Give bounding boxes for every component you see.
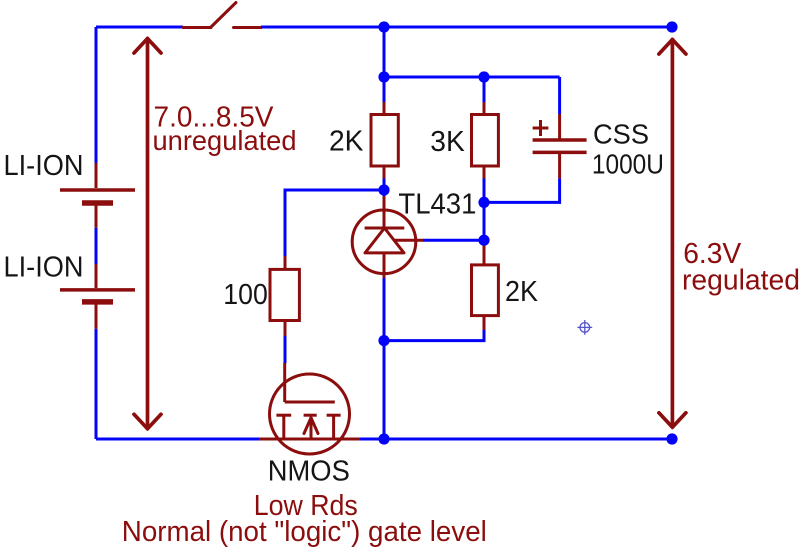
NMOS channel segments <box>276 414 340 417</box>
wire ref to divider <box>423 239 484 242</box>
svg-text:NMOS: NMOS <box>268 456 350 488</box>
arrow unregulated voltage <box>134 39 161 429</box>
node dot ref <box>478 235 489 246</box>
svg-text:100: 100 <box>223 279 267 311</box>
svg-text:regulated: regulated <box>682 265 800 297</box>
wire 3K bottom to ref node <box>483 179 486 241</box>
svg-text:CSS: CSS <box>593 119 649 150</box>
wire 100 to gate <box>284 336 287 363</box>
resistor R1 2K <box>371 115 398 167</box>
node dot second wire right <box>478 71 489 82</box>
svg-text:unregulated: unregulated <box>153 125 297 156</box>
TL431 ref lead <box>395 239 423 242</box>
TL431 internal vertical <box>383 210 386 275</box>
svg-text:LI-ION: LI-ION <box>4 251 84 283</box>
wire 3K top <box>483 77 486 102</box>
node dot cap bottom <box>478 197 489 208</box>
battery B1 stubs <box>95 163 98 228</box>
NMOS arrow <box>304 418 318 434</box>
wire top left <box>96 26 183 29</box>
switch S1 <box>183 3 261 28</box>
battery B1 <box>60 190 135 203</box>
resistor R3 100 stubs <box>284 256 287 336</box>
NMOS rail <box>259 438 360 441</box>
wire second horizontal <box>384 76 560 79</box>
resistor R4 2K stubs <box>483 244 486 330</box>
svg-text:LI-ION: LI-ION <box>4 150 84 182</box>
NMOS gate bar <box>285 401 335 404</box>
op-amp U1 TL431 stubs <box>383 196 386 278</box>
resistor R3 100 <box>270 269 299 320</box>
battery B2 stubs <box>95 264 98 329</box>
capacitor plus sign <box>533 120 549 136</box>
TL431 triangle <box>365 228 404 253</box>
node dot second wire left <box>378 71 389 82</box>
TL431 cathode bar <box>365 227 405 230</box>
wire top right <box>261 26 672 29</box>
node dot anode <box>378 335 389 346</box>
arrow regulated voltage <box>659 40 686 428</box>
resistor R1 2K stubs <box>383 102 386 179</box>
resistor R2 3K <box>472 115 499 167</box>
node dot gate divider <box>378 184 389 195</box>
svg-text:2K: 2K <box>505 276 538 308</box>
crosshair origin mark <box>577 320 592 335</box>
battery B2 <box>60 290 135 302</box>
NMOS gate lead <box>283 363 286 402</box>
node dot top right <box>666 21 677 32</box>
node dot bottom mid <box>378 433 389 444</box>
svg-text:3K: 3K <box>430 126 465 158</box>
transistor Q1 NMOS circle <box>270 374 350 454</box>
op-amp U1 TL431 circle <box>352 210 416 274</box>
resistor R4 2K <box>472 265 499 316</box>
svg-text:TL431: TL431 <box>398 189 476 221</box>
NMOS source drain drops <box>284 415 334 439</box>
svg-text:1000U: 1000U <box>592 149 664 180</box>
wire left vertical <box>95 27 98 439</box>
resistor R2 3K stubs <box>483 102 486 179</box>
wire gate path <box>285 190 384 256</box>
capacitor branch wires <box>484 77 560 202</box>
node dot bottom right <box>666 433 677 444</box>
svg-text:2K: 2K <box>329 126 364 158</box>
wire bottom left <box>96 438 259 441</box>
svg-text:Normal (not "logic") gate leve: Normal (not "logic") gate level <box>122 516 487 547</box>
capacitor CSS plates <box>533 140 587 152</box>
wire 2K bottom to anode node <box>384 330 484 341</box>
wire main vertical <box>383 27 386 439</box>
node dot top mid <box>378 21 389 32</box>
wire bottom right <box>360 438 672 441</box>
capacitor CSS stubs <box>558 114 561 178</box>
